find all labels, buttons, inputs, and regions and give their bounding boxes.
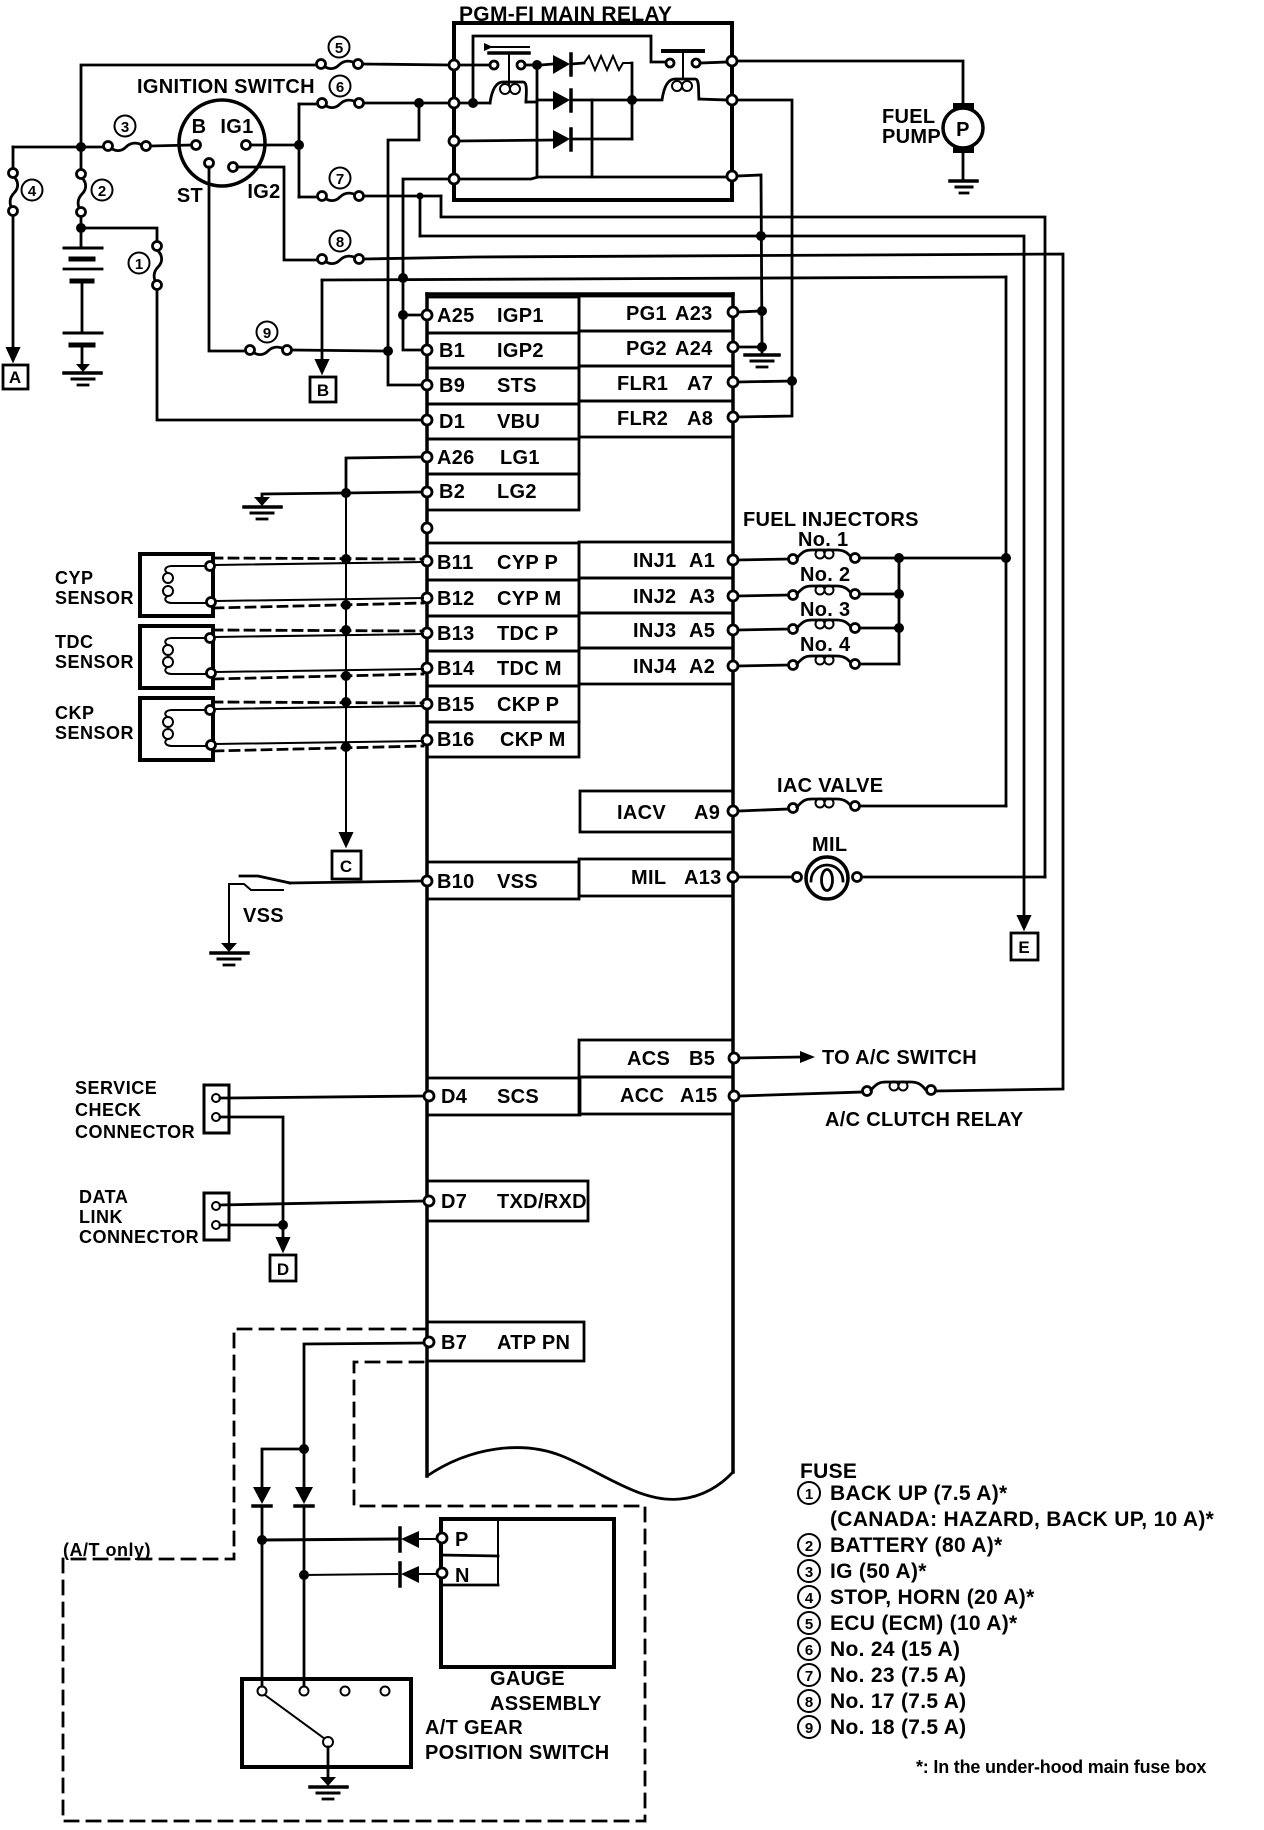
svg-text:ASSEMBLY: ASSEMBLY: [490, 1693, 602, 1715]
SECTION: connectors: [75, 1078, 424, 1281]
diode to N: [400, 1563, 437, 1586]
svg-text:TDC: TDC: [55, 632, 94, 652]
svg-text:B7: B7: [441, 1332, 467, 1354]
wire right diode to N node: [303, 1506, 306, 1575]
terminal A8: [728, 412, 738, 422]
svg-text:No. 24 (15 A): No. 24 (15 A): [830, 1638, 960, 1661]
junction PG2: [757, 342, 767, 352]
svg-text:P: P: [956, 119, 970, 141]
junction fuse7 branch: [417, 193, 424, 200]
junction STS node: [383, 346, 393, 356]
wire A13 to MIL: [738, 876, 793, 879]
wire STS node to B9: [388, 351, 421, 385]
terminal L2: [449, 98, 459, 108]
svg-text:6: 6: [805, 1642, 813, 1659]
svg-text:2: 2: [98, 183, 106, 200]
ECU pin row IACV A9: [580, 791, 733, 832]
wire battery rail down to fuse 2: [80, 147, 83, 168]
wire TDC M shield dashed: [214, 674, 423, 679]
junction shield B14: [341, 671, 351, 681]
wire fuse5 to relay L1: [363, 64, 449, 65]
resistor R: [584, 56, 632, 70]
terminal A2: [728, 661, 738, 671]
ECU pin row B7 ATP PN: [427, 1322, 584, 1361]
svg-text:7: 7: [805, 1668, 813, 1685]
svg-text:CYP P: CYP P: [497, 552, 558, 574]
ECU pin row D4 SCS: [427, 1078, 580, 1115]
arrow to A: [7, 346, 19, 361]
svg-text:E: E: [1018, 938, 1029, 957]
svg-text:CHECK: CHECK: [75, 1100, 142, 1120]
wire MIL to line1: [862, 876, 1045, 879]
svg-text:TXD/RXD: TXD/RXD: [497, 1191, 587, 1213]
junction fuse6 branch: [414, 98, 424, 108]
terminal B12: [422, 593, 432, 603]
terminal B11: [422, 556, 432, 566]
svg-text:3: 3: [121, 119, 129, 136]
svg-text:A7: A7: [687, 373, 713, 395]
terminal A3: [728, 591, 738, 601]
wire P node to P diode: [262, 1539, 397, 1540]
svg-text:B14: B14: [437, 658, 475, 680]
svg-text:D1: D1: [439, 411, 465, 433]
junction IG1: [294, 140, 304, 150]
ECU top edge: [427, 292, 733, 296]
wire fuse7 output: [364, 195, 441, 198]
svg-text:B1: B1: [439, 340, 465, 362]
terminal B7: [424, 1337, 434, 1347]
junction contact1 out: [532, 60, 542, 70]
ignition switch body: [179, 100, 265, 186]
junction R3/line2: [756, 231, 766, 241]
svg-text:INJ2: INJ2: [633, 586, 676, 608]
svg-text:FUEL INJECTORS: FUEL INJECTORS: [743, 509, 919, 531]
circled 1: [129, 253, 150, 274]
legend item 8: [798, 1690, 966, 1713]
svg-text:ACS: ACS: [627, 1048, 670, 1070]
svg-text:B12: B12: [437, 588, 475, 610]
svg-text:A/T GEAR: A/T GEAR: [425, 1717, 523, 1739]
ECU wavy bottom: [427, 1448, 733, 1500]
wire relay bottom inner: [459, 177, 727, 179]
SECTION: sensors: [55, 457, 423, 965]
wire fuse6 to relay L2: [364, 102, 449, 105]
wire left drop to fuse 4: [12, 147, 15, 167]
svg-text:B2: B2: [439, 481, 465, 503]
junction PG1: [757, 306, 767, 316]
svg-text:D7: D7: [441, 1191, 467, 1213]
wire left diode to P node: [261, 1506, 264, 1540]
svg-text:CYP M: CYP M: [497, 588, 561, 610]
arrow to C: [340, 832, 352, 846]
wire SCS low pin: [220, 1117, 283, 1240]
wire pump to ground: [962, 153, 965, 180]
gauge P cell: [441, 1519, 498, 1585]
svg-text:No. 23 (7.5 A): No. 23 (7.5 A): [830, 1664, 966, 1687]
wire contact1 to node: [525, 64, 537, 67]
terminal B14: [422, 663, 432, 673]
wire line2 E feed: [420, 236, 1024, 914]
svg-text:CYP: CYP: [55, 568, 94, 588]
wire R2 to FLR: [737, 100, 792, 417]
diode N-branch down: [295, 1487, 313, 1506]
ECU pin row FLR2 A8: [579, 401, 733, 437]
connector box C: [332, 851, 361, 879]
svg-text:7: 7: [336, 171, 344, 188]
svg-text:1: 1: [805, 1486, 813, 1503]
ECU pin row INJ2 A3: [579, 578, 733, 613]
fuse F9: [246, 346, 292, 355]
svg-text:9: 9: [263, 325, 271, 342]
ECU pin row B2 LG2: [427, 474, 579, 510]
injector No3: [738, 620, 895, 634]
svg-text:SENSOR: SENSOR: [55, 652, 134, 672]
wire fuse3 to B pin: [151, 145, 191, 146]
wire fuse2 to battery: [80, 217, 83, 246]
terminal B9: [422, 380, 432, 390]
svg-text:CKP M: CKP M: [500, 729, 566, 751]
wire CYP M shield dashed: [214, 603, 423, 608]
wire fuse4 down to arrow A: [12, 216, 15, 346]
ECU pin row B15 CKP P: [427, 686, 579, 722]
terminal A23: [728, 307, 738, 317]
circled 4: [22, 180, 43, 201]
wire resistor down to node: [631, 63, 634, 139]
svg-text:CKP: CKP: [55, 703, 95, 723]
svg-text:A26: A26: [437, 447, 475, 469]
junction A25: [398, 310, 408, 320]
legend item 9: [798, 1716, 966, 1739]
svg-text:A9: A9: [694, 802, 720, 824]
junction shield B11: [341, 554, 351, 564]
wire TDC P solid: [215, 634, 423, 637]
wire LG to ground: [262, 493, 346, 503]
ground VSS: [211, 943, 248, 965]
svg-text:No. 2: No. 2: [800, 564, 850, 586]
terminal L1: [449, 60, 459, 70]
ECU pin row INJ4 A2: [579, 648, 733, 684]
wire injector common: [898, 558, 901, 664]
diode P-branch down: [253, 1487, 271, 1506]
connector box B: [310, 377, 336, 402]
svg-text:B: B: [192, 116, 207, 138]
wire common to ground: [327, 1747, 330, 1779]
junction coil2 feed: [627, 95, 637, 105]
fuse F8: [318, 255, 364, 264]
svg-text:A2: A2: [689, 656, 715, 678]
svg-text:A1: A1: [689, 550, 715, 572]
svg-text:No. 3: No. 3: [800, 599, 850, 621]
wire B5 to AC switch: [739, 1057, 800, 1058]
terminal R2: [727, 95, 737, 105]
relay contact 1: [484, 43, 529, 84]
ECU pin row B10 VSS: [427, 862, 579, 899]
wire B2 LG2: [346, 492, 421, 493]
svg-text:MIL: MIL: [631, 867, 666, 889]
svg-text:BACK UP (7.5 A)*: BACK UP (7.5 A)*: [830, 1482, 1008, 1505]
terminal B15: [422, 699, 432, 709]
diode D3r: [459, 129, 632, 150]
terminal D4: [424, 1091, 434, 1101]
circled 7: [330, 168, 351, 189]
injector No2: [738, 586, 895, 600]
wire P node to pin1: [261, 1540, 264, 1686]
wire IG1 fuse6 jog down to STS node: [388, 103, 419, 351]
svg-text:CONNECTOR: CONNECTOR: [75, 1122, 195, 1142]
svg-text:GAUGE: GAUGE: [490, 1668, 565, 1690]
svg-text:C: C: [340, 857, 352, 876]
svg-text:8: 8: [805, 1694, 813, 1711]
svg-text:LG2: LG2: [497, 481, 537, 503]
terminal D1: [422, 415, 432, 425]
junction L2 inner: [468, 98, 478, 108]
terminal B2: [422, 487, 432, 497]
connector box A: [3, 365, 28, 389]
wire V1 vertical: [536, 65, 539, 177]
wire N node to pin2: [303, 1575, 306, 1686]
circled 5: [329, 37, 350, 58]
junction LG: [341, 488, 351, 498]
svg-text:MIL: MIL: [812, 834, 847, 856]
svg-text:No. 17 (7.5 A): No. 17 (7.5 A): [830, 1690, 966, 1713]
arrow to B: [316, 360, 328, 373]
ECU pin row B13 TDC P: [427, 616, 579, 651]
diode D1r: [541, 54, 584, 75]
svg-text:No. 1: No. 1: [798, 529, 848, 551]
ECU pin row PG1 A23: [579, 296, 733, 331]
terminal B1: [422, 345, 432, 355]
wire L4 to IGP rail: [403, 179, 449, 315]
ECU pin row B9 STS: [427, 368, 579, 404]
ECU pin row INJ1 A1: [579, 542, 733, 578]
wire B10 to VSS: [290, 881, 422, 883]
junction N node: [299, 1570, 309, 1580]
ground fuel pump: [950, 181, 977, 193]
svg-text:IG (50 A)*: IG (50 A)*: [830, 1560, 927, 1583]
fuse F3: [104, 142, 151, 151]
wire coil1 to V1: [526, 101, 537, 104]
svg-text:8: 8: [336, 234, 344, 251]
fuse F2: [77, 170, 86, 217]
wire injectors to rail: [899, 557, 1006, 560]
terminal B5: [729, 1053, 739, 1063]
terminal A26: [422, 452, 432, 462]
wire A7 to FLR node: [738, 381, 792, 382]
svg-text:SERVICE: SERVICE: [75, 1078, 157, 1098]
wire battery rail up to y=65: [81, 65, 314, 147]
svg-text:VBU: VBU: [497, 411, 540, 433]
svg-text:A15: A15: [680, 1085, 718, 1107]
junction battery top: [76, 223, 86, 233]
wire CKP M shield dashed: [214, 746, 423, 751]
svg-text:INJ4: INJ4: [633, 656, 677, 678]
svg-text:A13: A13: [684, 867, 722, 889]
svg-text:ECU (ECM) (10 A)*: ECU (ECM) (10 A)*: [830, 1612, 1018, 1635]
svg-text:FLR2: FLR2: [617, 408, 668, 430]
svg-text:*: In the under-hood main fuse: *: In the under-hood main fuse box: [916, 1757, 1206, 1777]
ECU left edge: [425, 294, 429, 1476]
svg-text:B11: B11: [437, 552, 474, 574]
svg-text:STOP, HORN (20 A)*: STOP, HORN (20 A)*: [830, 1586, 1035, 1609]
SECTION: ecu: [422, 294, 739, 1499]
fuel pump motor: [943, 103, 983, 153]
svg-text:1: 1: [135, 256, 143, 273]
ECU pin row A25 IGP1: [427, 297, 579, 333]
svg-text:No. 4: No. 4: [800, 634, 851, 656]
relay coil 2: [636, 79, 699, 100]
svg-text:A5: A5: [689, 620, 715, 642]
wire shield bus down to C: [345, 493, 347, 832]
arrow to D: [277, 1238, 289, 1251]
IAC valve coil: [738, 799, 1006, 813]
ECU pin row A26 LG1: [427, 439, 579, 474]
wire CKP M solid: [216, 741, 423, 744]
ECU pin row B11 CYP P: [427, 543, 579, 580]
circled 9: [257, 322, 278, 343]
svg-text:5: 5: [805, 1616, 813, 1633]
AC clutch relay coil: [863, 1082, 936, 1096]
svg-text:B9: B9: [439, 375, 465, 397]
ECU pin row ACC A15: [579, 1077, 733, 1114]
terminal A7: [728, 377, 738, 387]
terminal B16: [422, 735, 432, 745]
junction shield B12: [341, 600, 351, 610]
ECU pin row D7 TXD/RXD: [427, 1181, 588, 1221]
legend item 1: [798, 1482, 1008, 1505]
fuse F5: [317, 60, 363, 69]
TDC sensor: [140, 626, 216, 688]
circled 2: [92, 180, 113, 201]
svg-text:A25: A25: [437, 305, 475, 327]
wire IG1 riser x=299: [298, 104, 301, 197]
svg-text:6: 6: [336, 79, 344, 96]
switch arm: [265, 1695, 325, 1739]
junction inj1: [894, 553, 904, 563]
wire L1 to contact1: [459, 64, 490, 67]
wire CYP P shield dashed: [213, 558, 423, 559]
wire battery to fuse 1: [81, 228, 157, 242]
wire fuse7 branch down to line2: [419, 196, 422, 236]
svg-text:IG2: IG2: [247, 181, 280, 203]
pin IG1: [242, 141, 251, 150]
circled 3: [115, 116, 136, 137]
SECTION: midband: [310, 103, 1063, 1091]
wire CYP M solid: [216, 598, 423, 601]
battery: [64, 248, 102, 368]
wire L2 to coil1: [459, 102, 490, 105]
wire R1 to fuel pump: [737, 61, 963, 103]
pin IG2: [229, 163, 238, 172]
ECU pin row ACS B5: [579, 1040, 733, 1077]
diode D2r: [537, 90, 630, 111]
svg-text:(CANADA: HAZARD, BACK UP, 10 A: (CANADA: HAZARD, BACK UP, 10 A)*: [830, 1508, 1215, 1531]
wire DLC low pin: [220, 1224, 283, 1227]
junction inj3: [894, 623, 904, 633]
junction battery rail: [76, 142, 86, 152]
relay box: [454, 23, 732, 200]
svg-text:LG1: LG1: [500, 447, 540, 469]
wire arrow-B drop: [321, 280, 324, 366]
svg-text:ACC: ACC: [620, 1085, 664, 1107]
junction shield B16: [341, 742, 351, 752]
wire line4 main-relay output rail: [322, 277, 1006, 280]
terminal L3: [449, 136, 459, 146]
svg-text:IGP2: IGP2: [497, 340, 544, 362]
ECU pin row B1 IGP2: [427, 333, 579, 368]
service check connector: [204, 1085, 229, 1133]
junction B7 branch: [299, 1444, 309, 1454]
svg-text:N: N: [455, 1565, 470, 1587]
MIL lamp: [793, 857, 862, 899]
legend item 6: [798, 1638, 960, 1661]
fuse F6: [318, 99, 364, 108]
wire B7 to diode node: [304, 1343, 424, 1449]
svg-text:PG1: PG1: [626, 303, 667, 325]
svg-text:IGNITION SWITCH: IGNITION SWITCH: [137, 76, 315, 98]
wire elbow to B1: [403, 315, 421, 350]
svg-text:ATP PN: ATP PN: [497, 1332, 570, 1354]
wire TDC P shield dashed: [213, 630, 423, 631]
connector box E: [1011, 933, 1038, 960]
wire SCS to D4: [220, 1096, 424, 1098]
svg-text:SENSOR: SENSOR: [55, 588, 134, 608]
svg-text:SCS: SCS: [497, 1086, 539, 1108]
svg-text:3: 3: [805, 1564, 813, 1581]
wire coil2 to R2: [699, 99, 727, 100]
svg-text:B5: B5: [689, 1048, 715, 1070]
svg-text:FUSE: FUSE: [800, 1460, 857, 1483]
svg-text:A23: A23: [675, 303, 713, 325]
svg-text:TO A/C SWITCH: TO A/C SWITCH: [822, 1047, 977, 1069]
switch pin 3: [341, 1687, 350, 1696]
wire ST run: [209, 167, 243, 351]
svg-text:4: 4: [28, 183, 37, 200]
wire line3 AC feed: [364, 254, 1063, 1091]
relay coil 1: [490, 82, 526, 103]
svg-text:A24: A24: [675, 338, 713, 360]
legend item 2: [798, 1534, 1003, 1557]
SECTION: legend: [798, 1460, 1215, 1777]
svg-text:B16: B16: [437, 729, 475, 751]
ECU right edge: [731, 294, 735, 1472]
svg-text:5: 5: [335, 40, 343, 57]
injector No4: [738, 656, 899, 670]
wire contact2 to R1: [700, 62, 727, 63]
svg-text:IGP1: IGP1: [497, 305, 544, 327]
terminal A9: [728, 806, 738, 816]
terminal N: [437, 1568, 447, 1578]
arrow to E: [1018, 914, 1030, 929]
AT dashed boundary: [63, 1329, 645, 1821]
relay contact 2: [663, 51, 703, 78]
svg-text:VSS: VSS: [497, 871, 538, 893]
junction shield B15: [341, 697, 351, 707]
svg-text:4: 4: [805, 1590, 814, 1607]
switch pin 4: [381, 1687, 390, 1696]
switch pin 1: [258, 1687, 267, 1696]
wire to fuse7: [299, 196, 315, 199]
data link connector: [204, 1193, 229, 1240]
svg-text:(A/T only): (A/T only): [63, 1540, 151, 1560]
terminal A5: [728, 625, 738, 635]
ground AT switch: [310, 1777, 347, 1799]
wire CKP P shield dashed: [213, 702, 423, 703]
wire relay inner top link: [473, 36, 664, 103]
injector No1: [738, 550, 895, 564]
ground LG: [244, 497, 281, 519]
terminal A24: [728, 342, 738, 352]
ECU pin row MIL A13: [579, 859, 733, 896]
